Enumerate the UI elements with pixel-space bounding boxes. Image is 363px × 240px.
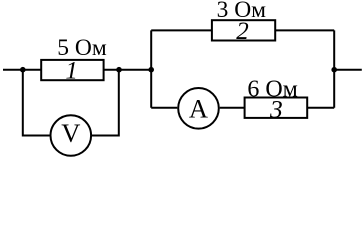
junction J2 — [116, 67, 122, 73]
resistor R2 — [212, 20, 275, 40]
wire parallel left vertical — [150, 30, 152, 107]
wire top branch left — [151, 29, 212, 31]
svg-text:6 Ом: 6 Ом — [247, 77, 298, 103]
wire left lead — [3, 69, 41, 71]
svg-text:V: V — [61, 118, 80, 148]
wire bottom branch right — [307, 107, 334, 109]
wire voltmeter branch left — [23, 70, 50, 136]
svg-text:A: A — [189, 93, 208, 123]
svg-text:5 Ом: 5 Ом — [57, 35, 107, 61]
wire voltmeter branch right — [92, 70, 119, 136]
wire top branch right — [275, 29, 334, 31]
wire parallel right vertical — [333, 30, 335, 107]
wire bottom branch left — [151, 107, 177, 109]
svg-text:3 Ом: 3 Ом — [217, 0, 267, 23]
voltmeter V — [51, 115, 92, 156]
wire ammeter to R3 — [220, 107, 245, 109]
svg-text:1: 1 — [65, 58, 78, 85]
wire right lead — [334, 69, 362, 71]
resistor R3 — [245, 98, 308, 118]
junction J3 — [148, 67, 154, 73]
ammeter A — [178, 88, 219, 129]
wire R1 to node B — [104, 69, 152, 71]
junction J4 — [331, 67, 337, 73]
junction J1 — [20, 67, 26, 73]
resistor R1 — [41, 60, 103, 80]
